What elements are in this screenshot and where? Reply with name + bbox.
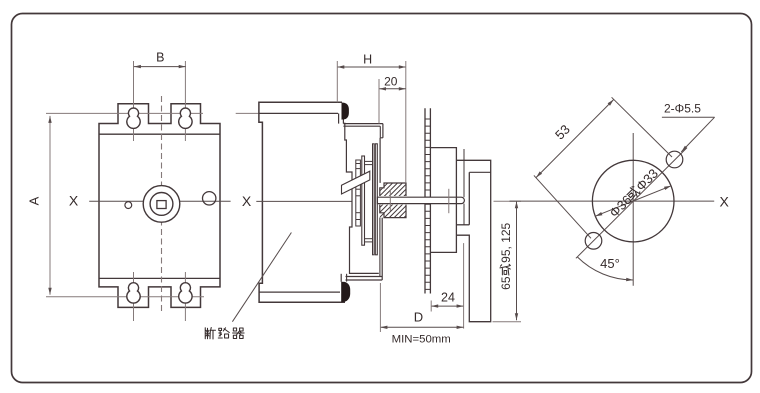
svg-text:20: 20 — [384, 75, 398, 89]
body horizontal edge top — [99, 133, 220, 135]
handle unit front housing — [456, 160, 491, 321]
breaker front-view body outline — [99, 104, 220, 308]
X-X axis line middle view — [256, 200, 351, 202]
dimension B line — [134, 66, 186, 68]
H extension right — [405, 61, 407, 183]
20 extension left — [378, 79, 380, 124]
65 extension top — [494, 200, 522, 202]
keyhole slot top-left — [127, 108, 140, 128]
tie lines upper — [365, 160, 373, 162]
projection line between views — [236, 112, 338, 114]
24/D extension right — [463, 243, 465, 329]
dimension H line — [337, 66, 406, 68]
case band line bottom — [259, 291, 340, 293]
handle knob outer circle — [143, 186, 180, 223]
diameter dimension line — [595, 186, 671, 216]
svg-text:53: 53 — [552, 122, 573, 143]
housing bottom flange — [346, 276, 383, 278]
svg-text:MIN=50mm: MIN=50mm — [392, 334, 451, 346]
svg-text:Φ33: Φ33 — [633, 166, 661, 194]
shaft center tick 2 — [448, 189, 450, 213]
keyhole slot top-right — [179, 108, 192, 128]
dashed vertical centerline — [161, 96, 163, 314]
svg-text:X: X — [242, 193, 252, 209]
53 extension line lower — [534, 175, 591, 238]
housing front wall upper — [382, 124, 384, 138]
svg-text:X: X — [720, 194, 730, 210]
housing front wall lower — [381, 218, 383, 280]
label phi36 or phi33 (rotated, vector huo) — [606, 166, 661, 221]
clip strip plate — [356, 160, 361, 226]
leader line to breaker — [232, 233, 291, 322]
bushing top block (hatched) — [380, 183, 406, 196]
screw hole top-right — [666, 151, 683, 168]
D extension left — [379, 283, 381, 332]
inner bore lines — [463, 149, 465, 197]
45 degree arc — [577, 257, 633, 280]
svg-text:X: X — [69, 193, 79, 209]
case band line top — [259, 112, 338, 114]
svg-text:B: B — [156, 51, 164, 65]
24 extension tick left — [430, 301, 432, 312]
adapter plate main — [375, 144, 377, 255]
svg-text:95, 125: 95, 125 — [499, 222, 513, 262]
extension shaft — [377, 197, 464, 203]
dimension D line — [380, 326, 463, 328]
body horizontal edge bottom — [99, 277, 220, 279]
H extension left — [336, 61, 338, 102]
dimension A line — [49, 116, 51, 295]
2-phi5.5 underline and leader — [662, 116, 715, 118]
screw hole bottom-left — [585, 233, 602, 250]
dimension 24 line — [431, 305, 463, 307]
svg-text:45°: 45° — [600, 256, 620, 271]
molded corner top (filled) — [342, 103, 349, 120]
slot centerline vertical left bottom — [133, 272, 135, 321]
molded corner bottom (filled) — [341, 282, 350, 302]
slot centerline vertical right top — [184, 61, 186, 141]
label 65or95,125 (rotated, vector huo) — [499, 222, 513, 289]
slot centerline vertical right bottom — [184, 272, 186, 321]
handle mounting hole circle — [592, 160, 674, 242]
mounting panel section — [424, 108, 426, 293]
label 断路器 (vector glyphs) — [205, 328, 215, 340]
square shaft hole — [157, 201, 166, 209]
breaker front face profile — [345, 123, 379, 274]
65 extension bottom — [493, 321, 522, 323]
diagonal link bar — [342, 171, 370, 194]
case lower wall to corner — [340, 274, 342, 282]
X-X axis line left view — [89, 200, 230, 202]
svg-text:H: H — [363, 53, 372, 67]
svg-text:65: 65 — [499, 276, 513, 290]
drive plate middle — [362, 156, 365, 245]
case front wall upper — [338, 113, 340, 123]
svg-text:D: D — [414, 310, 423, 325]
small pilot hole — [125, 202, 132, 209]
housing top flange — [343, 123, 383, 125]
drive plate tall — [373, 144, 375, 255]
vertical centerline right view — [632, 133, 634, 286]
keyhole slot bottom-right — [179, 283, 192, 303]
tie lines lower — [365, 238, 373, 240]
side hole right — [203, 192, 216, 205]
dimension 53 line — [536, 100, 614, 178]
slot centerline vertical left top — [133, 61, 135, 141]
handle unit back block — [430, 148, 456, 253]
svg-text:24: 24 — [441, 291, 455, 305]
keyhole slot bottom-left — [127, 283, 140, 303]
dimension 65or95,125 line — [516, 201, 518, 320]
slot centerline horizontal bottom — [46, 296, 204, 298]
svg-text:2-Φ5.5: 2-Φ5.5 — [664, 102, 701, 116]
side-view case left profile — [259, 102, 345, 302]
slot centerline horizontal top — [46, 112, 203, 114]
bushing bottom block (hatched) — [380, 205, 406, 218]
dimension 20 line — [379, 88, 406, 90]
svg-text:Φ36: Φ36 — [606, 192, 634, 220]
svg-text:A: A — [27, 196, 42, 205]
53 extension line upper — [612, 97, 672, 157]
handle knob inner circle — [150, 193, 173, 216]
45-degree hole centerline — [576, 148, 687, 258]
X-X axis line right view — [510, 200, 715, 202]
shaft center tick 1 — [389, 190, 391, 212]
